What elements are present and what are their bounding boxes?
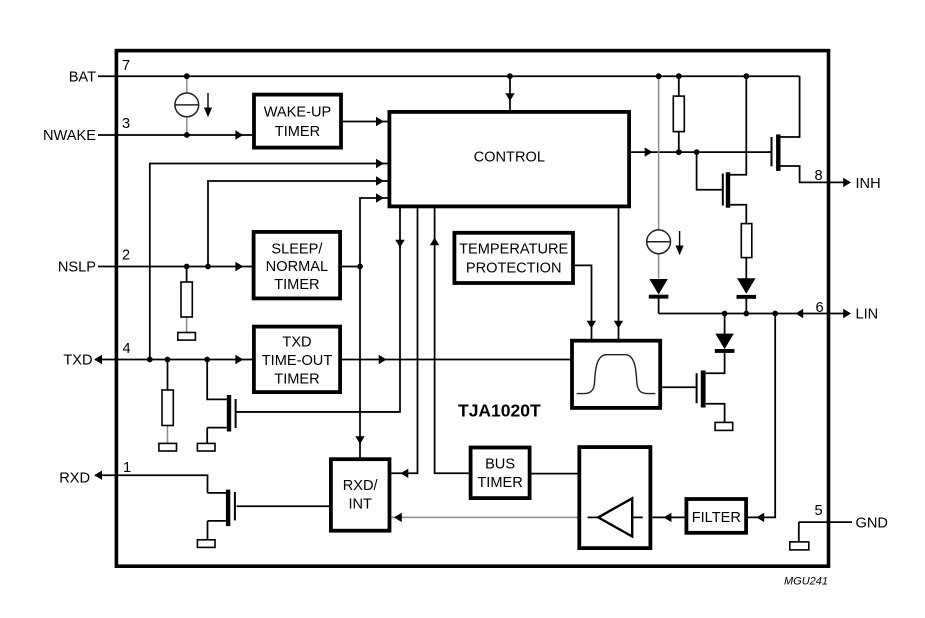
node CONTROL-out/R1 junction — [676, 149, 682, 155]
svg-text:INT: INT — [348, 497, 372, 513]
svg-text:TJA1020T: TJA1020T — [458, 401, 541, 421]
svg-text:1: 1 — [123, 460, 131, 476]
svg-text:FILTER: FILTER — [692, 510, 741, 526]
svg-text:TIMER: TIMER — [275, 124, 320, 140]
wire TXD node down to M1 drain — [207, 360, 227, 400]
svg-text:GND: GND — [856, 515, 888, 531]
arrow LIN into FILTER — [756, 513, 764, 522]
svg-text:8: 8 — [815, 168, 823, 184]
current source CS2 circle — [647, 230, 671, 254]
arrow RXD pin (outward) — [94, 471, 102, 480]
node LIN/D3 junction — [722, 311, 728, 317]
transistor M3 (INH driver) — [772, 134, 781, 171]
svg-text:NORMAL: NORMAL — [266, 259, 328, 275]
svg-text:PROTECTION: PROTECTION — [466, 261, 562, 277]
wire M5 source to ground — [706, 404, 725, 423]
svg-text:NWAKE: NWAKE — [43, 128, 96, 144]
svg-text:TIME-OUT: TIME-OUT — [262, 353, 333, 369]
wire M4 drain up to BAT — [730, 76, 746, 175]
wire TXD node up to CONTROL input y=163.5 — [150, 164, 388, 360]
outer border frame — [116, 51, 828, 567]
svg-text:RXD/: RXD/ — [343, 478, 379, 494]
wire BAT tap down to CONTROL top x=510 — [509, 76, 511, 110]
diode D2 (under R2) — [737, 278, 757, 299]
svg-text:3: 3 — [122, 116, 130, 132]
node SLEEP output junction — [357, 264, 363, 270]
node BAT/R1 junction — [676, 73, 682, 79]
wire D1 cathode to LIN line corner — [658, 298, 660, 314]
arrow into CONTROL y=198 — [376, 193, 384, 202]
svg-text:TXD: TXD — [282, 334, 311, 350]
wire TXD timer output to slope shaper — [340, 359, 572, 361]
arrow TXD timer output toward shaper — [379, 355, 387, 364]
svg-text:WAKE-UP: WAKE-UP — [264, 105, 332, 121]
ground G3 (below M1 source) — [197, 443, 215, 451]
wire BUS TIMER up to CONTROL x=434.6 — [435, 208, 469, 473]
arrow BAT into CONTROL top — [505, 93, 514, 101]
wire node x=360 down to RXD/INT top — [359, 267, 361, 458]
ground G6 (GND pin) — [790, 542, 809, 550]
wire GND pin line y=522.1 — [799, 521, 852, 523]
block CONTROL — [389, 112, 629, 206]
wire TXD pull-down resistor R4 top — [167, 360, 169, 391]
svg-text:2: 2 — [122, 248, 130, 264]
current source CS1 circle — [175, 93, 199, 117]
ground G2 (below R4) — [159, 443, 177, 451]
wire BUS TIMER output to comparator — [532, 473, 580, 475]
svg-text:MGU241: MGU241 — [784, 576, 828, 588]
svg-text:TIMER: TIMER — [274, 277, 319, 293]
arrow CONTROL down x=400 — [395, 240, 404, 248]
resistor R4 (TXD pull-down) — [162, 390, 173, 426]
wire D3 cathode to M5 drain — [706, 352, 725, 373]
arrow into CONTROL y=181 — [376, 176, 384, 185]
wire M5 gate from slope shaper — [662, 386, 696, 388]
current source CS1 direction arrow — [204, 93, 212, 117]
block TEMPERATURE PROTECTION — [454, 233, 573, 283]
arrow comparator output into RXD/INT — [394, 513, 402, 522]
wire current source CS2 vertical (grey) top — [658, 76, 660, 230]
svg-text:NSLP: NSLP — [58, 260, 96, 276]
wire GND pin down to ground symbol — [798, 522, 800, 542]
node CONTROL-out/M4 junction — [694, 149, 700, 155]
arrow BUS TIMER up into CONTROL x=434.6 — [430, 238, 439, 246]
svg-text:TXD: TXD — [63, 353, 92, 369]
wire current source CS1 stub top (grey) — [186, 76, 188, 93]
svg-text:BUS: BUS — [485, 456, 515, 472]
wire FILTER output to comparator — [652, 516, 685, 518]
arrow LIN internal (inward) — [795, 309, 803, 318]
svg-text:INH: INH — [856, 176, 881, 192]
node NWAKE/CS1 junction — [184, 132, 190, 138]
resistor R3 (NSLP pull-down) — [181, 282, 192, 317]
svg-text:LIN: LIN — [856, 306, 879, 322]
arrow INH pin (outward) — [843, 178, 851, 187]
node BAT/CS2 junction — [656, 73, 662, 79]
current source CS2 direction arrow — [676, 231, 684, 255]
wire M1 source to ground — [207, 428, 227, 444]
arrow CONTROL output right — [645, 147, 653, 156]
svg-text:6: 6 — [816, 300, 824, 316]
arrow TXD into TXD timer — [235, 355, 243, 364]
svg-text:CONTROL: CONTROL — [474, 149, 545, 165]
transistor M5 (LIN driver) — [697, 371, 706, 408]
wire SLEEP timer output to node x=360 — [340, 266, 360, 268]
node BAT/M4 junction — [743, 73, 749, 79]
wire M2 gate to RXD/INT — [237, 505, 331, 507]
arrow into RXD/INT top — [355, 436, 364, 444]
block SLEEP/NORMAL TIMER — [254, 232, 341, 299]
wire NSLP node up to CONTROL input y=181 — [208, 181, 388, 267]
op-amp comparator receiver box — [579, 447, 650, 548]
wire NSLP line y=266.5 — [98, 266, 255, 268]
node BAT/CONTROL junction — [507, 73, 513, 79]
wire R1 bottom to CONTROL output line — [678, 132, 680, 153]
wire current source CS1 stub bottom (grey) — [186, 117, 188, 135]
block FILTER — [686, 499, 746, 533]
wire CONTROL output right y=152.1 — [631, 151, 771, 153]
node TXD/R4 junction — [165, 357, 171, 363]
wire R1 top to BAT — [678, 76, 680, 96]
arrow into CONTROL y=163.5 — [376, 159, 384, 168]
wire WAKE-UP timer output to CONTROL — [341, 121, 388, 123]
wire M3 source to INH pin 8 — [781, 166, 847, 182]
arrow LIN pin (outward) — [843, 309, 851, 318]
svg-text:7: 7 — [122, 58, 130, 74]
wire CONTROL down to M1 gate x=400 — [236, 208, 400, 412]
svg-text:5: 5 — [815, 503, 823, 519]
transistor M4 (second INH path) — [723, 172, 730, 208]
wire current source CS2 to diode D1 (grey) — [658, 254, 660, 279]
arrow NWAKE into WAKE-UP TIMER — [235, 130, 243, 139]
block TXD TIME-OUT TIMER — [254, 327, 340, 393]
arrow into RXD/INT right side — [401, 469, 409, 478]
svg-text:TEMPERATURE: TEMPERATURE — [459, 241, 568, 257]
svg-text:BAT: BAT — [69, 70, 96, 86]
wire CONTROL down to RXD/INT right x=417.5 — [391, 208, 417, 473]
svg-text:TIMER: TIMER — [477, 475, 522, 491]
wire R2 bottom to diode D2 — [745, 258, 747, 279]
ground G1 (below R3) — [178, 333, 196, 341]
svg-text:SLEEP/: SLEEP/ — [271, 242, 323, 258]
diode D3 (above M5 LIN driver) — [715, 334, 735, 353]
block WAKE-UP TIMER — [254, 95, 341, 148]
wire D3 anode up to LIN line — [724, 314, 726, 335]
wire M3 gate line end — [768, 151, 771, 153]
node NSLP branch junction — [205, 264, 211, 270]
resistor R1 (BAT pull) — [673, 96, 684, 132]
wire M3 drain up to BAT — [781, 76, 800, 137]
block slope shaper with waveform — [572, 341, 660, 408]
wire comparator output to RXD/INT (grey) — [391, 516, 578, 518]
transistor M1 (TXD pull-down) — [227, 395, 400, 432]
svg-text:TIMER: TIMER — [274, 371, 319, 387]
ground G4 (below M2 source) — [197, 540, 215, 548]
wire M2 source to ground — [208, 521, 226, 540]
wire BAT rail y=76.2 — [98, 75, 800, 77]
arrow TEMP PROT into shaper — [587, 321, 596, 329]
arrow WAKE-UP TIMER into CONTROL — [376, 117, 384, 126]
wire R3 bottom to ground (grey) — [186, 317, 188, 333]
wire M4 gate from CONTROL output line — [697, 152, 723, 190]
wire LIN line y=313 — [659, 313, 846, 315]
svg-text:RXD: RXD — [59, 471, 90, 487]
node LIN/D2 junction — [743, 311, 749, 317]
wire R4 bottom to ground (grey) — [167, 426, 169, 444]
wire node x=360 up to CONTROL input y=198 — [360, 198, 388, 267]
wire TEMPERATURE PROTECTION output to slope shaper — [575, 265, 592, 340]
block BUS TIMER — [471, 448, 530, 499]
wire NSLP pull-down resistor R3 top — [186, 267, 188, 283]
diode D1 (left, under CS2) — [649, 279, 669, 299]
svg-text:4: 4 — [123, 341, 131, 357]
node TXD/M1 junction — [204, 357, 210, 363]
arrow FILTER into comparator — [664, 513, 672, 522]
wire D2 cathode to LIN line — [745, 298, 747, 314]
arrow CONTROL into shaper — [614, 321, 623, 329]
block RXD/INT — [331, 459, 390, 531]
arrow TXD pin (outward) — [94, 355, 102, 364]
ground G5 (below M5 source) — [715, 422, 733, 430]
node NSLP/R3 junction — [184, 264, 190, 270]
wire M2 drain stub — [208, 492, 226, 494]
wire TXD line y=359.5 — [95, 359, 255, 361]
wire NWAKE line y=135 — [98, 134, 256, 136]
node LIN/FILTER junction — [772, 311, 778, 317]
wire LIN down to FILTER input x=775.2 — [747, 314, 775, 518]
node BAT/CS1 junction — [184, 73, 190, 79]
arrow NSLP into SLEEP timer — [235, 262, 243, 271]
wire CONTROL down to slope shaper x=618.5 — [618, 208, 620, 340]
wire M4 source down to R2 — [730, 205, 746, 224]
node TXD branch 1 junction — [147, 357, 153, 363]
resistor R2 (INH path) — [741, 224, 752, 258]
wire RXD line from pin to M2 drain — [95, 475, 208, 493]
transistor M2 (RXD output) — [226, 490, 235, 526]
wire M1 gate stub — [235, 411, 237, 413]
